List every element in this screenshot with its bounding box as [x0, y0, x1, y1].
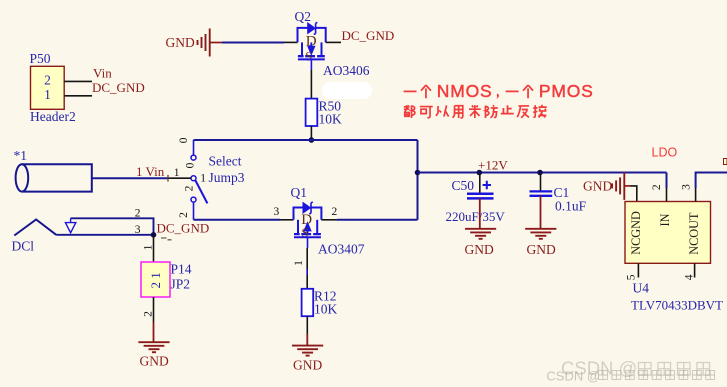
svg-text:0: 0: [184, 162, 196, 168]
svg-text:10K: 10K: [319, 112, 343, 127]
resistor R12: [302, 289, 338, 317]
svg-text:2: 2: [135, 208, 141, 220]
power port GND (C1): [525, 229, 556, 257]
IC U4: [625, 202, 711, 264]
svg-text:0: 0: [178, 137, 190, 143]
pin DCl.3 wire: [56, 234, 153, 236]
wire C1 to GND: [540, 196, 542, 229]
wire to P14: [153, 235, 155, 262]
annotation line 1: [404, 81, 594, 101]
svg-text:5: 5: [625, 274, 637, 280]
connector DCl: [12, 220, 57, 254]
svg-text:2: 2: [178, 212, 190, 218]
pin Q1.3: [280, 219, 294, 221]
svg-text:1: 1: [44, 87, 51, 102]
watermark remnant dashes: [161, 238, 172, 240]
power port GND (P14): [138, 342, 169, 368]
svg-text:C50: C50: [452, 178, 475, 193]
connector *1 barrel: [14, 148, 92, 192]
junction C1: [537, 170, 543, 176]
pin U4.2: [666, 188, 668, 202]
wire C50 to GND: [479, 198, 481, 228]
power port GND (C50): [465, 229, 497, 257]
svg-text:AO3407: AO3407: [318, 242, 365, 257]
svg-text:GND: GND: [527, 242, 556, 257]
pin P50.2: [64, 80, 92, 82]
svg-text:Q1: Q1: [291, 185, 308, 200]
jumper Select Jump3: [174, 137, 245, 220]
svg-text:AO3406: AO3406: [323, 63, 370, 78]
wire top rail: [194, 139, 418, 141]
svg-text:Jump3: Jump3: [209, 170, 245, 185]
svg-text:GND: GND: [166, 35, 195, 50]
svg-text:220uF/35V: 220uF/35V: [446, 209, 506, 224]
power port GND (U4): [583, 172, 631, 200]
pin U4.4: [694, 263, 696, 277]
capacitor C50: [446, 173, 506, 224]
svg-text:2: 2: [44, 73, 51, 88]
white patch (erased area): [322, 82, 372, 99]
wire GND to U4 pin1: [631, 186, 637, 202]
wire +12V rail: [418, 172, 667, 174]
annotation line 2: [404, 105, 547, 118]
svg-text:*1: *1: [14, 148, 28, 163]
junction +12V: [415, 170, 421, 176]
transistor Q2: [295, 9, 326, 70]
svg-text:1: 1: [143, 244, 155, 250]
wire Q1 gate to R12: [306, 248, 308, 289]
pin Q2.D: [326, 41, 341, 43]
svg-text:2: 2: [143, 311, 155, 317]
svg-text:Q2: Q2: [295, 9, 312, 24]
svg-text:DC_GND: DC_GND: [342, 28, 395, 43]
svg-text:TLV70433DBVT: TLV70433DBVT: [631, 298, 723, 313]
fragment at right edge: [724, 159, 727, 165]
pin Q2.S: [284, 41, 298, 43]
resistor R50: [306, 99, 342, 127]
wire Q2 gate to R50: [310, 70, 312, 99]
svg-text:IN: IN: [658, 213, 672, 226]
svg-text:+12V: +12V: [478, 158, 508, 173]
wire pin3 to edge: [696, 173, 727, 189]
svg-text:P50: P50: [30, 51, 51, 66]
svg-text:3: 3: [680, 184, 692, 190]
wire Vin: [92, 177, 169, 179]
wire +12V to pin2: [666, 173, 668, 189]
wire switch to Q1: [194, 219, 281, 221]
junction C50: [477, 170, 483, 176]
power port GND (top left): [166, 29, 223, 57]
wire right vertical: [417, 140, 419, 220]
capacitor C1: [530, 173, 587, 214]
svg-text:2 1: 2 1: [148, 272, 163, 288]
pin DCl.2 wire: [71, 218, 154, 235]
pin P50.1: [64, 95, 92, 97]
svg-text:DCl: DCl: [12, 239, 35, 254]
svg-text:10K: 10K: [314, 302, 338, 317]
svg-text:DC_GND: DC_GND: [157, 221, 210, 236]
pin U4.5: [637, 263, 639, 277]
connector P50: [30, 51, 76, 124]
svg-text:GND: GND: [140, 354, 169, 369]
wire R12 to GND: [306, 316, 308, 334]
junction DC_GND: [151, 232, 157, 238]
svg-text:2: 2: [651, 184, 663, 190]
svg-text:2: 2: [183, 185, 195, 191]
svg-text:1: 1: [293, 260, 305, 266]
pin P14.2: [153, 297, 155, 322]
svg-text:1 Vin: 1 Vin: [136, 164, 165, 179]
power port GND (R12): [292, 346, 323, 373]
svg-text:0.1uF: 0.1uF: [555, 199, 587, 214]
svg-text:PMOS: PMOS: [539, 81, 594, 101]
junction R50/rail: [309, 137, 315, 143]
svg-text:GND: GND: [583, 179, 612, 194]
svg-text:2: 2: [332, 206, 338, 218]
svg-text:1: 1: [200, 173, 206, 185]
watermark big: [561, 358, 710, 379]
svg-text:Vin: Vin: [93, 66, 112, 81]
svg-text:NMOS: NMOS: [437, 81, 493, 101]
svg-text:NCGND: NCGND: [629, 211, 643, 255]
watermark small: [546, 369, 714, 384]
svg-text:Select: Select: [209, 154, 242, 169]
wire P14 to GND: [153, 322, 155, 342]
pin wire to switch: [169, 177, 192, 179]
svg-text:1: 1: [174, 167, 180, 179]
svg-text:LDO: LDO: [652, 146, 678, 160]
svg-text:GND: GND: [293, 358, 322, 373]
wire R50 to rail: [310, 126, 312, 140]
svg-text:JP2: JP2: [171, 277, 191, 292]
svg-text:3: 3: [135, 224, 141, 236]
transistor Q1: [291, 185, 322, 248]
connector P14: [141, 262, 192, 298]
svg-text:NCOUT: NCOUT: [687, 212, 701, 255]
svg-text:Header2: Header2: [30, 109, 76, 124]
wire Q1 to right vertical: [337, 219, 418, 221]
svg-text:U4: U4: [633, 281, 650, 296]
switch contact triangle: [65, 218, 75, 233]
wire GND to Q2: [222, 42, 284, 44]
svg-text:GND: GND: [465, 242, 494, 257]
svg-text:DC_GND: DC_GND: [92, 80, 145, 95]
svg-text:3: 3: [274, 206, 280, 218]
svg-text:CSDN @: CSDN @: [546, 369, 600, 384]
svg-text:P14: P14: [171, 262, 192, 277]
pin U4.3: [695, 188, 697, 202]
pin end tick: [167, 175, 169, 182]
pin Q1.2: [321, 219, 337, 221]
svg-text:4: 4: [683, 274, 695, 280]
